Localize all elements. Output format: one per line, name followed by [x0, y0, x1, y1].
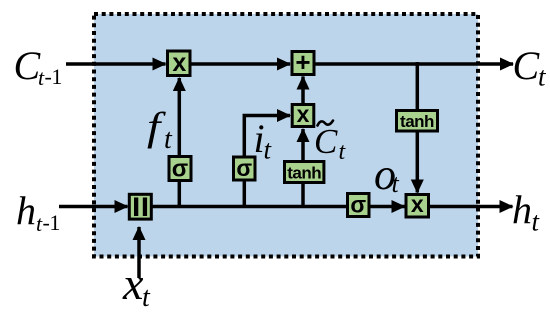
node C_{t-1} label: [14, 43, 62, 90]
svg-text:-1: -1: [43, 210, 60, 235]
plus gate on C-line: [292, 47, 314, 77]
svg-text:C: C: [513, 43, 541, 88]
svg-text:x: x: [411, 191, 424, 217]
node h_{t-1} label: [16, 188, 60, 236]
svg-text:t: t: [142, 282, 151, 313]
sigma1 (forget gate): [169, 156, 191, 183]
multiply gate (forget) on C-line: [168, 49, 191, 77]
wire: sigma1 up into forget multiply gate: [178, 78, 182, 156]
wire: h-line from h_{t-1} into concat box: [59, 205, 128, 209]
wire: x_t arrow up into concat box: [137, 227, 141, 278]
svg-text:σ: σ: [350, 192, 366, 218]
middle tanh (candidate): [285, 162, 324, 183]
svg-text:σ: σ: [172, 156, 188, 183]
wire: right tanh down into right multiply gate: [416, 132, 420, 193]
wire: C-line from plus gate to C_t output: [315, 62, 513, 66]
wire: sigma2 down to h-line: [243, 181, 247, 209]
node i_t label: [254, 116, 273, 165]
node C-tilde_t label: [314, 121, 347, 165]
svg-text:t: t: [538, 62, 547, 92]
svg-text:t: t: [392, 169, 400, 198]
svg-text:h: h: [512, 187, 532, 232]
svg-text:x: x: [297, 101, 310, 127]
wire: branch down from C-line to right tanh: [416, 62, 420, 111]
svg-text:+: +: [295, 47, 310, 77]
svg-text:tanh: tanh: [400, 112, 434, 131]
wire: middle tanh down to h-line: [301, 183, 305, 208]
svg-text:h: h: [16, 188, 36, 233]
node f_t label: [147, 105, 173, 155]
wire: middle tanh up into middle multiply gate: [301, 129, 305, 161]
node o_t label: [374, 150, 400, 199]
wire: C-line from multiply gate to plus gate: [191, 62, 290, 66]
node C_t label: [513, 43, 548, 92]
svg-text:t: t: [532, 207, 541, 237]
svg-text:tanh: tanh: [287, 164, 321, 183]
middle multiply gate: [292, 101, 314, 127]
svg-text:C: C: [314, 122, 338, 161]
wire: sigma1 down to h-line: [178, 181, 182, 208]
sigma2 (input gate): [234, 155, 256, 181]
svg-text:x: x: [122, 258, 144, 309]
svg-text:σ: σ: [236, 155, 252, 181]
node x_t label: [122, 258, 151, 313]
sigma3 (output gate): [348, 192, 370, 218]
wire: middle multiply gate up into plus gate: [301, 77, 305, 105]
svg-text:t: t: [164, 124, 173, 155]
right multiply gate: [406, 191, 429, 217]
wire: C-line from C_{t-1} into forget multiply gate: [66, 62, 166, 66]
wire: sigma3 to right multiply gate: [370, 205, 405, 209]
svg-text:x: x: [172, 49, 186, 77]
concat box with two bars: [129, 194, 151, 219]
svg-text:-1: -1: [45, 64, 62, 89]
wire: h-line from concat box to sigma3: [152, 205, 348, 209]
LSTM cell body (dotted rectangle): [94, 14, 478, 257]
wire: h-line from right multiply gate to h_t output: [430, 205, 513, 209]
wire: i elbow from sigma2 up and right into middle multiply gate: [244, 116, 290, 157]
node h_t label: [512, 187, 541, 237]
right tanh: [397, 111, 438, 132]
